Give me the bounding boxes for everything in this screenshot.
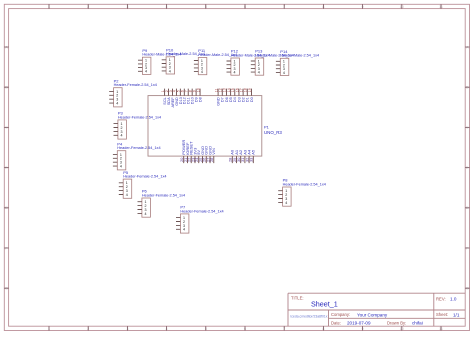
svg-text:REV:: REV: [436,297,446,302]
svg-text:3: 3 [126,327,128,331]
svg-text:9: 9 [362,5,364,9]
svg-text:Sheet:: Sheet: [436,312,448,317]
header P3 female 1x4 [118,120,127,139]
svg-text:G: G [466,287,469,291]
svg-text:7: 7 [283,5,285,9]
svg-text:8: 8 [322,327,324,331]
svg-text:4: 4 [126,193,128,197]
svg-text:6: 6 [244,327,246,331]
svg-text:9: 9 [362,327,364,331]
svg-text:TITLE:: TITLE: [291,296,304,301]
header P12 male 1x4 [231,58,240,75]
svg-text:A: A [466,45,469,49]
svg-text:4: 4 [120,165,122,169]
svg-text:4: 4 [183,228,185,232]
svg-text:4: 4 [169,69,171,73]
svg-text:A5: A5 [251,149,256,155]
svg-text:1/1: 1/1 [453,312,460,317]
svg-text:chifai: chifai [412,321,423,326]
svg-text:E: E [5,206,8,210]
svg-text:Header-Female-2.54_1x4: Header-Female-2.54_1x4 [283,182,326,186]
svg-text:4: 4 [145,212,147,216]
svg-text:VIN: VIN [211,148,216,155]
svg-text:Header-Female-2.54_1x4: Header-Female-2.54_1x4 [180,209,223,213]
svg-text:Sheet_1: Sheet_1 [311,300,338,309]
IC P1 UNO_R3 body [148,96,262,157]
header P7 female 1x4 [180,214,189,233]
svg-text:D: D [5,166,8,170]
svg-text:UNO_R3: UNO_R3 [264,130,282,135]
svg-text:D0: D0 [250,97,254,102]
IC pin stubs [165,89,254,164]
svg-text:7: 7 [283,327,285,331]
svg-text:D: D [466,166,469,170]
header P13 male 1x4 [255,58,264,75]
svg-text:8: 8 [322,5,324,9]
svg-text:2: 2 [87,5,89,9]
header P8 female 1x4 [283,187,292,206]
svg-text:5: 5 [205,327,207,331]
svg-text:C: C [466,126,469,130]
header P2 female 1x4 [114,88,123,107]
header P10 male 1x4 [166,57,175,74]
svg-text:2: 2 [87,327,89,331]
svg-text:6: 6 [244,5,246,9]
svg-text:Drawn By:: Drawn By: [387,320,406,325]
svg-text:4: 4 [166,327,168,331]
svg-text:B: B [466,86,469,90]
svg-text:E: E [466,206,469,210]
svg-text:4: 4 [201,70,203,74]
svg-text:4: 4 [121,134,123,138]
svg-text:A: A [5,45,8,49]
svg-text:G: G [5,287,8,291]
svg-text:Date:: Date: [331,320,341,325]
svg-text:4: 4 [283,71,285,75]
svg-text:P1: P1 [264,125,270,130]
svg-text:Header-Female-2.54_1x4: Header-Female-2.54_1x4 [123,175,166,179]
header P4 female 1x4 [117,151,126,170]
svg-text:Header-Female-2.54_1x4: Header-Female-2.54_1x4 [118,115,161,119]
svg-text:19: 19 [248,88,252,92]
svg-text:1.0: 1.0 [450,297,457,302]
svg-text:10: 10 [400,5,404,9]
svg-text:2019-07-09: 2019-07-09 [347,321,371,326]
svg-text:33: 33 [249,157,254,162]
svg-text:4: 4 [145,70,147,74]
svg-text:4: 4 [234,71,236,75]
svg-text:4: 4 [116,102,118,106]
svg-text:10: 10 [196,88,200,92]
svg-text:lceda.cn/editor/23a8f01x: lceda.cn/editor/23a8f01x [291,315,328,319]
svg-text:Header-Female-2.54_1x4: Header-Female-2.54_1x4 [114,83,157,87]
svg-text:1: 1 [48,5,50,9]
svg-text:B: B [5,86,8,90]
svg-text:5: 5 [205,5,207,9]
svg-text:3: 3 [126,5,128,9]
header P5 female 1x4 [123,179,132,198]
header P11 male 1x4 [198,58,207,75]
svg-text:28: 28 [209,157,214,162]
svg-text:Header-Female-2.54_1x4: Header-Female-2.54_1x4 [142,193,185,197]
svg-text:Header-Female-2.54_1x4: Header-Female-2.54_1x4 [117,146,160,150]
svg-text:11: 11 [439,5,443,9]
svg-text:4: 4 [285,201,287,205]
svg-text:10: 10 [400,327,404,331]
svg-text:Header-Male-2.54_1x4: Header-Male-2.54_1x4 [280,54,319,58]
header P6 female 1x4 [142,198,151,217]
svg-text:D8: D8 [198,97,202,102]
svg-text:11: 11 [439,327,443,331]
svg-text:4: 4 [166,5,168,9]
svg-text:1: 1 [48,327,50,331]
header P14 male 1x4 [280,58,289,75]
svg-text:C: C [5,126,8,130]
svg-text:Company:: Company: [331,312,350,317]
svg-text:4: 4 [258,71,260,75]
title block [288,293,465,326]
header P9 male 1x4 [142,57,151,74]
svg-text:Your Company: Your Company [357,312,388,317]
